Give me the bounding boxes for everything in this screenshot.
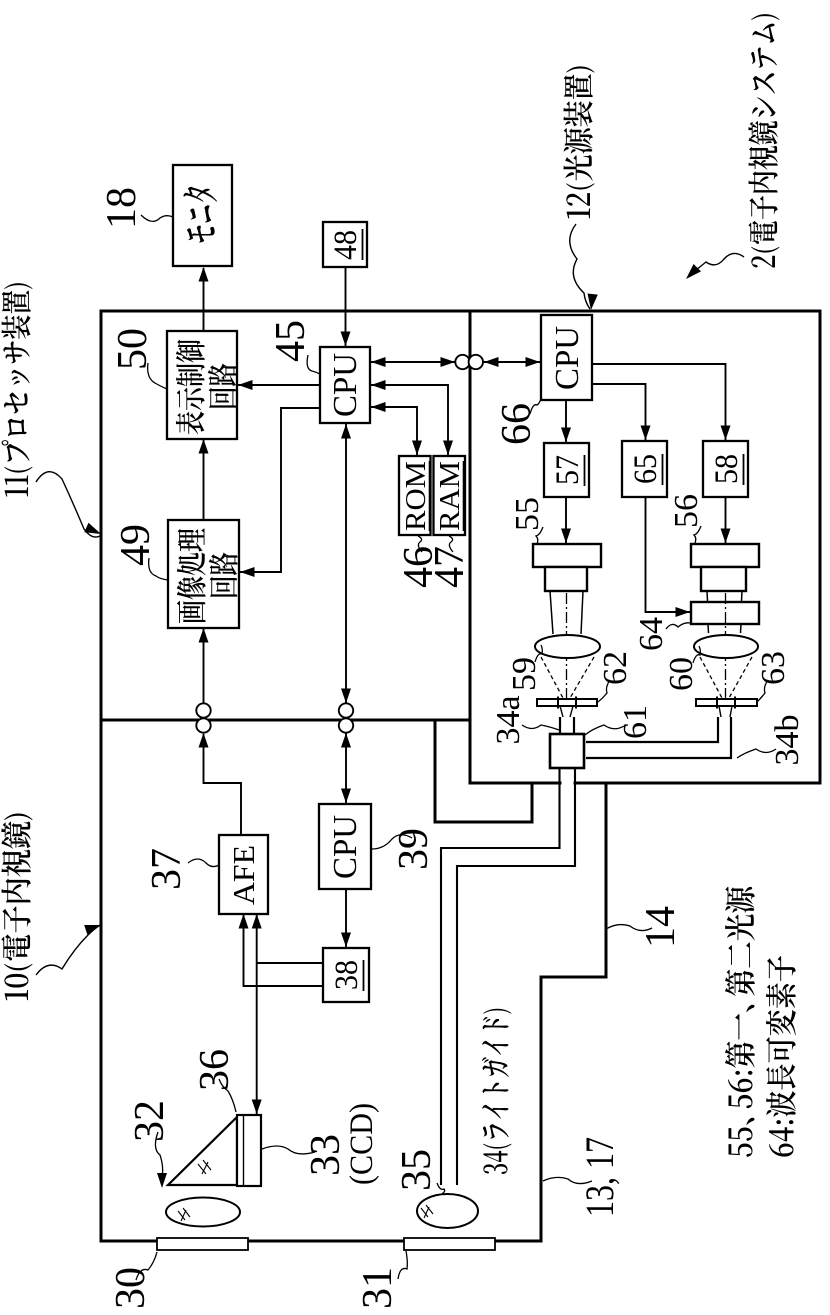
- CCD 33 box: [237, 1115, 261, 1186]
- beam55 lower edge: [581, 591, 583, 634]
- arrowhead into source 56: [721, 529, 731, 544]
- arrowhead into 50 bottom: [238, 380, 253, 390]
- light source 56 body: [691, 544, 759, 567]
- image processing text line1: [177, 528, 206, 623]
- svg-text:65: 65: [628, 454, 664, 484]
- leader 34a: [522, 725, 559, 730]
- beam56 upper edge b: [707, 624, 710, 633]
- svg-text:RAM: RAM: [434, 461, 466, 531]
- connector plate 31: [404, 1238, 495, 1250]
- cone56 upper dashed: [700, 657, 722, 698]
- arrowhead label 2: [686, 264, 701, 279]
- label 10 electronic endoscope: [1, 814, 32, 1001]
- leader 37: [188, 859, 219, 867]
- leader 34b: [737, 749, 776, 758]
- wire connectorA-CPU66: [483, 361, 540, 363]
- connector circle C1: [339, 718, 353, 732]
- 58 underline: [743, 454, 745, 485]
- optical axis 56 dash-dot: [725, 593, 727, 699]
- svg-text:36: 36: [192, 1049, 238, 1091]
- leader 31: [398, 1251, 407, 1279]
- light source device 12 box: [470, 311, 820, 783]
- label 34 light guide: [482, 1009, 512, 1174]
- cone56 lower dashed: [729, 657, 752, 698]
- AFE 37 box: [219, 835, 268, 914]
- pipe 34b outer wall: [586, 717, 731, 758]
- plate63 tick lower: [734, 697, 736, 709]
- monitor box 18: [173, 165, 232, 266]
- plate62 tick lower: [575, 697, 577, 709]
- wire 57-55: [565, 497, 567, 543]
- wire AFE-connectorB: [204, 734, 242, 834]
- arrowhead into 65: [641, 426, 651, 441]
- wire CPU45-RAM: [371, 385, 448, 455]
- wire 38 branch to CCD line: [257, 962, 322, 964]
- box 65: [622, 441, 667, 497]
- tube62 wall bottom: [573, 717, 575, 734]
- wire CCD-AFE: [256, 915, 258, 1114]
- arrowhead into 58: [721, 426, 731, 441]
- wire CPU39-38: [345, 889, 347, 947]
- arrowhead into filter 64: [676, 607, 691, 617]
- wire CPU45-49: [240, 408, 320, 572]
- collimator lens 59: [535, 635, 600, 658]
- svg-text:49: 49: [113, 524, 159, 566]
- RAM underline: [463, 461, 465, 531]
- display control text line1: [176, 340, 205, 434]
- label 11 processor device: [1, 283, 32, 496]
- image processing text line2: [209, 553, 238, 597]
- CPU 66 box: [541, 315, 592, 400]
- connector circle B1: [196, 718, 210, 732]
- svg-text:48: 48: [328, 230, 364, 260]
- light source 56 snout: [701, 567, 746, 591]
- svg-text:47: 47: [427, 546, 473, 588]
- leader 45: [307, 355, 320, 374]
- svg-text:13, 17: 13, 17: [577, 1137, 622, 1217]
- leader 56: [694, 526, 701, 543]
- arrowhead label 32: [157, 1173, 167, 1188]
- arrowhead into connectorC left: [341, 733, 351, 748]
- wire 49-50: [203, 440, 205, 520]
- svg-text:30: 30: [108, 1267, 154, 1309]
- leader 55: [536, 527, 543, 544]
- wire CPU66-57: [565, 400, 567, 442]
- arrowhead label 11: [84, 523, 101, 534]
- arrowhead into RAM: [443, 441, 453, 456]
- svg-text:18: 18: [99, 187, 145, 229]
- leader 49: [149, 558, 168, 580]
- arrowhead into ROM: [412, 441, 422, 456]
- light guide 34 wall A: [441, 769, 560, 1185]
- legend line2: [766, 956, 796, 1157]
- funnel 62 to tube: [560, 706, 573, 717]
- arrowhead into connectorA top: [441, 357, 456, 367]
- box 57: [544, 443, 589, 497]
- arrowhead into CCD: [252, 1100, 262, 1115]
- 48 underline: [362, 229, 364, 260]
- leader 39: [372, 835, 412, 849]
- arrowhead into 57: [561, 428, 571, 443]
- 65 underline: [662, 454, 664, 485]
- svg-text:57: 57: [550, 455, 586, 485]
- CPU 45 box: [320, 347, 370, 423]
- wire 65-64: [646, 497, 691, 612]
- svg-text:35: 35: [394, 1149, 440, 1191]
- connector circle B2: [196, 703, 210, 717]
- arrowhead into connectorC right: [341, 689, 351, 704]
- leader 35: [437, 1183, 445, 1194]
- prism hatch mark: [198, 1160, 211, 1174]
- leader 18: [141, 215, 173, 221]
- beam56 lower edge a: [741, 591, 744, 601]
- wire CPU45-connectorA: [371, 361, 455, 363]
- image processing circuit 49: [168, 520, 239, 628]
- svg-text:CPU: CPU: [549, 326, 586, 390]
- box 48: [323, 222, 367, 267]
- wavelength variable element 64: [691, 602, 759, 624]
- connector plate 30: [157, 1238, 248, 1250]
- light source 55 snout: [545, 567, 587, 591]
- wire 48-CPU45: [345, 267, 347, 346]
- connector circle C2: [339, 703, 353, 717]
- beam56 lower edge b: [740, 624, 743, 633]
- svg-text:34a: 34a: [490, 695, 527, 744]
- svg-text:CPU: CPU: [327, 815, 364, 879]
- arrowhead into source 55: [561, 529, 571, 544]
- arrowhead into 49 left: [199, 628, 209, 643]
- svg-text:ROM: ROM: [400, 461, 432, 531]
- arrowhead into 38: [341, 933, 351, 948]
- label 12 light source device: [563, 66, 594, 218]
- svg-text:64: 64: [633, 617, 670, 651]
- svg-text:AFE: AFE: [226, 845, 261, 905]
- display control circuit 50: [167, 331, 237, 439]
- svg-text:66: 66: [494, 403, 540, 445]
- lens35 hatch mark: [421, 1205, 433, 1218]
- arrowhead into CPU45 from ROM: [371, 402, 386, 412]
- plate62 tick upper: [557, 697, 559, 709]
- legend line1: [725, 887, 755, 1157]
- svg-text:32: 32: [127, 1100, 173, 1142]
- incident plate 62: [537, 699, 597, 706]
- svg-text:50: 50: [110, 328, 156, 370]
- beam55 upper edge: [550, 591, 553, 634]
- wire connectorB-49: [203, 629, 205, 703]
- svg-text:CPU: CPU: [327, 353, 364, 417]
- processor device 11 box: [101, 311, 470, 720]
- svg-text:38: 38: [329, 960, 365, 990]
- leader 47: [449, 536, 453, 552]
- CPU 39 box: [319, 804, 371, 889]
- ROM 46 box: [399, 456, 431, 535]
- display control text line2: [208, 364, 237, 408]
- svg-text:34b: 34b: [769, 715, 806, 766]
- arrowhead into AFE lower: [252, 914, 262, 929]
- leader 14: [606, 925, 652, 931]
- connector circle A2: [469, 355, 483, 369]
- arrowhead into CPU45 left: [341, 424, 351, 439]
- svg-text:55: 55: [509, 497, 546, 531]
- svg-text:37: 37: [144, 848, 190, 890]
- arrowhead label 10: [84, 925, 101, 935]
- wire 38-AFE upper: [244, 915, 323, 986]
- leader 62: [598, 680, 610, 702]
- leader 59: [535, 645, 542, 662]
- arrowhead into AFE upper: [239, 914, 249, 929]
- incident plate 63: [696, 699, 757, 706]
- arrowhead into CPU45 from RAM: [371, 380, 386, 390]
- leader 64: [666, 623, 690, 629]
- cone55 lower dashed: [570, 657, 594, 698]
- leader 30: [136, 1252, 157, 1280]
- arrowhead into CPU66 top: [526, 357, 541, 367]
- arrowhead into 49 bottom: [240, 567, 255, 577]
- monitor label text: [184, 187, 218, 243]
- arrowhead into CPU45 right: [341, 332, 351, 347]
- 38 underline: [363, 960, 365, 991]
- svg-text:62: 62: [597, 651, 634, 685]
- wire CPU66-58: [592, 364, 726, 440]
- 57 underline: [584, 455, 586, 486]
- light guide 34 wall B: [457, 769, 575, 1185]
- svg-text:(CCD): (CCD): [344, 1103, 380, 1185]
- svg-text:14: 14: [638, 906, 684, 948]
- leader 63: [757, 680, 768, 702]
- wire CPU66-65: [592, 384, 646, 440]
- svg-text:59: 59: [506, 657, 543, 691]
- arrowhead into 50: [199, 439, 209, 454]
- pipe 34b inner wall: [586, 717, 718, 742]
- light guide lens 35: [417, 1194, 478, 1228]
- arrowhead into connectorA bottom: [484, 357, 499, 367]
- box 38: [323, 948, 369, 1002]
- svg-text:33: 33: [303, 1134, 349, 1176]
- wire connectorC-CPU45: [345, 424, 347, 703]
- endoscope 10 outline: [101, 720, 606, 1241]
- svg-text:45: 45: [268, 320, 314, 362]
- leader 61: [585, 725, 624, 735]
- box 58: [703, 441, 748, 497]
- wire 50-monitor: [203, 268, 205, 331]
- arrowhead into connectorB left: [199, 733, 209, 748]
- leader 46: [418, 536, 422, 552]
- leader 2: [689, 253, 744, 276]
- label 2 endoscope system: [748, 14, 779, 267]
- funnel 63 to pipe: [719, 706, 732, 717]
- leader 33: [262, 1146, 315, 1154]
- leader 60: [693, 646, 700, 663]
- leader 12: [570, 224, 590, 309]
- cone55 upper dashed: [541, 657, 563, 698]
- RAM 47 box: [434, 456, 466, 535]
- lens hatch mark: [178, 1208, 190, 1221]
- leader 13 17: [543, 1177, 592, 1183]
- svg-text:58: 58: [709, 454, 745, 484]
- leader 32: [155, 1132, 162, 1177]
- arrowhead into monitor: [199, 267, 209, 282]
- svg-text:60: 60: [663, 657, 700, 691]
- wire 58-56: [725, 497, 727, 543]
- prism 32: [168, 1117, 237, 1185]
- beam56 upper edge a: [706, 591, 709, 601]
- leader 36: [219, 1079, 236, 1112]
- svg-text:63: 63: [755, 651, 792, 685]
- CCD cover glass divider 36: [243, 1115, 245, 1186]
- arrowhead label 12: [588, 294, 598, 311]
- connector circle A1: [455, 355, 469, 369]
- svg-text:31: 31: [355, 1267, 401, 1309]
- ROM underline: [429, 461, 431, 531]
- svg-text:56: 56: [668, 494, 705, 528]
- light guide 34 white underlay: [562, 775, 574, 791]
- svg-text:39: 39: [391, 828, 437, 870]
- combiner 61 box: [550, 734, 584, 768]
- svg-text:61: 61: [617, 705, 654, 739]
- light source 55 body: [533, 544, 601, 567]
- tube62 wall top: [559, 717, 561, 734]
- wire CPU45-50: [238, 384, 320, 386]
- optical axis 55 dash-dot: [566, 593, 568, 699]
- wire CPU39-connectorC: [345, 733, 347, 803]
- leader 11: [36, 472, 100, 537]
- leader 10: [36, 925, 100, 975]
- leader 50: [148, 363, 167, 389]
- arrowhead into CPU39: [341, 789, 351, 804]
- leader 66: [530, 399, 541, 414]
- wire CPU45-ROM: [371, 407, 417, 455]
- plate63 tick upper: [716, 697, 718, 709]
- collimator lens 60: [694, 635, 758, 658]
- objective lens (32 arrow target): [166, 1198, 240, 1227]
- arrowhead into CPU45 bottom: [371, 357, 386, 367]
